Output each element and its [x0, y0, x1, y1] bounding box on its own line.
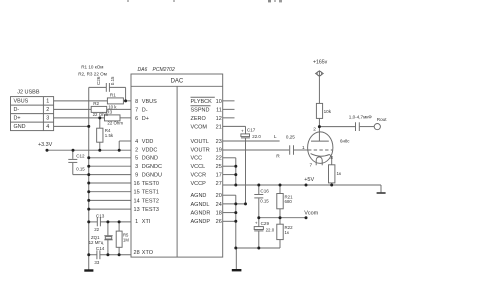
svg-text:VCCP: VCCP: [191, 181, 207, 187]
svg-text:1к: 1к: [285, 230, 289, 235]
svg-text:2: 2: [135, 147, 138, 153]
svg-text:12 МГц: 12 МГц: [89, 240, 104, 245]
svg-text:7: 7: [310, 163, 313, 169]
svg-text:11: 11: [216, 107, 222, 113]
svg-text:DGNDC: DGNDC: [142, 164, 162, 170]
svg-text:2: 2: [46, 107, 49, 113]
svg-text:TEST3: TEST3: [142, 207, 159, 213]
svg-text:VCC: VCC: [191, 156, 203, 162]
svg-text:1,0-4,7мкФ: 1,0-4,7мкФ: [349, 114, 372, 119]
svg-text:33: 33: [94, 260, 99, 265]
svg-text:D-: D-: [142, 107, 148, 113]
svg-text:L: L: [274, 134, 277, 140]
svg-text:GND: GND: [14, 124, 26, 130]
svg-text:VOUTR: VOUTR: [191, 147, 210, 153]
svg-text:C12: C12: [76, 154, 85, 159]
svg-text:21: 21: [216, 124, 222, 130]
svg-text:DAC: DAC: [171, 79, 184, 85]
svg-text:1.5k: 1.5k: [105, 133, 114, 138]
svg-text:3: 3: [330, 155, 333, 161]
svg-text:XTO: XTO: [142, 250, 154, 256]
svg-text:12: 12: [216, 116, 222, 122]
svg-text:22 Ohm: 22 Ohm: [107, 121, 123, 126]
svg-text:R2: R2: [93, 101, 99, 106]
svg-text:TEST2: TEST2: [142, 198, 159, 204]
svg-text:9: 9: [135, 173, 138, 179]
svg-text:22.0: 22.0: [252, 134, 261, 139]
svg-text:18: 18: [216, 211, 222, 217]
svg-text:4: 4: [135, 139, 138, 145]
svg-text:16: 16: [134, 181, 140, 187]
svg-text:1: 1: [46, 99, 49, 105]
svg-text:3: 3: [135, 164, 138, 170]
svg-text:0.15: 0.15: [260, 199, 269, 204]
svg-text:C16: C16: [260, 188, 269, 193]
svg-text:C17: C17: [247, 128, 256, 133]
svg-text:23: 23: [216, 139, 222, 145]
svg-text:3: 3: [46, 116, 49, 122]
svg-text:TEST1: TEST1: [142, 190, 159, 196]
svg-text:TEST0: TEST0: [142, 181, 159, 187]
svg-text:5: 5: [135, 156, 138, 162]
svg-text:2: 2: [313, 127, 316, 133]
svg-text:7: 7: [135, 107, 138, 113]
svg-text:R1 10 кОм: R1 10 кОм: [81, 64, 103, 69]
svg-text:1: 1: [302, 145, 305, 151]
svg-text:10 k: 10 k: [108, 104, 117, 109]
svg-text:+165v: +165v: [313, 60, 328, 66]
svg-text:DGND: DGND: [142, 156, 158, 162]
svg-text:PCM2702: PCM2702: [153, 67, 175, 73]
svg-text:24: 24: [216, 202, 222, 208]
svg-text:4: 4: [46, 124, 49, 130]
svg-text:+: +: [255, 221, 258, 226]
svg-text:C29: C29: [261, 221, 270, 226]
svg-text:AGNDP: AGNDP: [191, 219, 211, 225]
svg-text:0.15: 0.15: [76, 167, 85, 172]
svg-text:VBUS: VBUS: [14, 99, 29, 105]
svg-text:1: 1: [135, 219, 138, 225]
svg-text:VDD: VDD: [142, 139, 154, 145]
svg-text:13: 13: [134, 207, 140, 213]
svg-text:680: 680: [285, 199, 293, 204]
svg-text:25: 25: [216, 164, 222, 170]
svg-text:D+: D+: [14, 116, 21, 122]
svg-text:14: 14: [134, 198, 140, 204]
svg-text:6: 6: [135, 116, 138, 122]
svg-text:AGNDL: AGNDL: [191, 202, 210, 208]
svg-text:1M: 1M: [123, 237, 129, 242]
svg-text:AGNDR: AGNDR: [191, 211, 211, 217]
svg-text:VCCL: VCCL: [191, 164, 206, 170]
svg-text:22: 22: [216, 156, 222, 162]
svg-text:6н8с: 6н8с: [340, 139, 350, 144]
svg-text:0.15: 0.15: [110, 76, 115, 85]
svg-text:R3: R3: [106, 110, 112, 115]
svg-text:VOUTL: VOUTL: [191, 139, 209, 145]
svg-text:VBUS: VBUS: [142, 99, 157, 105]
svg-text:22: 22: [94, 227, 99, 232]
svg-text:20: 20: [216, 193, 222, 199]
svg-text:D+: D+: [142, 116, 149, 122]
svg-text:R2, R3 22 Ом: R2, R3 22 Ом: [78, 71, 107, 76]
svg-text:XTI: XTI: [142, 219, 151, 225]
svg-text:+3.3V: +3.3V: [38, 142, 53, 148]
svg-text:26: 26: [216, 219, 222, 225]
svg-text:15: 15: [134, 190, 140, 196]
svg-text:10: 10: [216, 99, 222, 105]
svg-text:28: 28: [134, 250, 140, 256]
svg-text:C26: C26: [96, 76, 101, 85]
svg-text:VDDC: VDDC: [142, 147, 158, 153]
svg-text:Vcom: Vcom: [304, 211, 318, 217]
svg-text:R1: R1: [110, 93, 116, 98]
svg-text:DGNDU: DGNDU: [142, 173, 162, 179]
svg-text:17: 17: [216, 173, 222, 179]
svg-text:VCCR: VCCR: [191, 173, 207, 179]
svg-text:R: R: [276, 153, 280, 159]
svg-text:AGND: AGND: [191, 193, 207, 199]
svg-text:27: 27: [216, 181, 222, 187]
svg-text:Rout: Rout: [377, 117, 387, 122]
svg-text:0,25: 0,25: [286, 134, 295, 139]
svg-text:ZERO: ZERO: [191, 116, 207, 122]
svg-text:+5V: +5V: [304, 177, 314, 183]
svg-text:D-: D-: [14, 107, 20, 113]
svg-text:+: +: [241, 129, 244, 134]
svg-text:8: 8: [135, 99, 138, 105]
svg-text:C14: C14: [96, 246, 105, 251]
svg-text:J2 USBB: J2 USBB: [17, 89, 40, 95]
svg-text:PLYBCK: PLYBCK: [191, 99, 213, 105]
svg-text:SSPND: SSPND: [191, 107, 210, 113]
svg-text:19: 19: [216, 147, 222, 153]
svg-text:22.0: 22.0: [266, 228, 275, 233]
svg-text:10k: 10k: [324, 109, 332, 114]
svg-text:DA6: DA6: [138, 67, 148, 73]
svg-text:VCOM: VCOM: [191, 124, 208, 130]
svg-text:C13: C13: [96, 213, 105, 218]
